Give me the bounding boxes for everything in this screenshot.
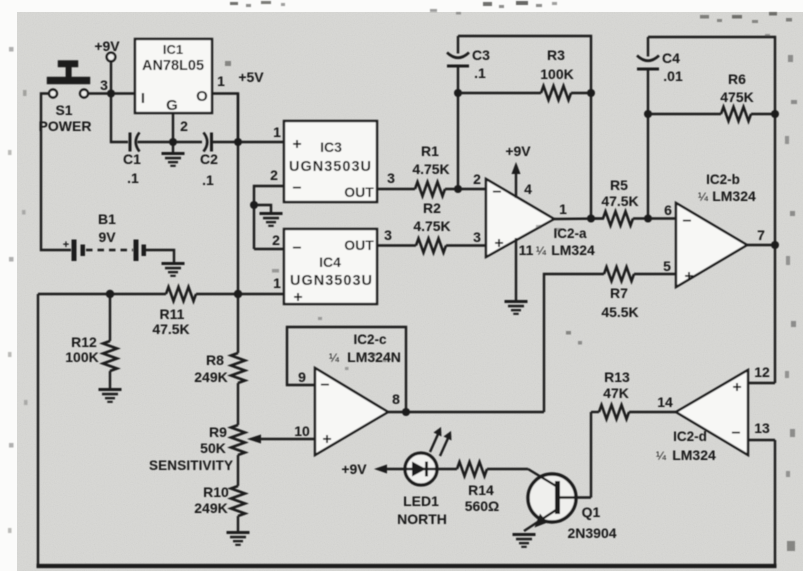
svg-text:C2: C2 [200,151,218,167]
svg-text:14: 14 [657,394,673,410]
svg-text:+: + [293,289,302,306]
svg-text:NORTH: NORTH [397,511,447,527]
svg-text:249K: 249K [194,500,227,516]
svg-text:45.5K: 45.5K [601,304,638,320]
wire Q1 collector up [590,412,592,498]
capacitor C2 [200,133,284,189]
svg-text:9V: 9V [98,229,116,245]
svg-text:S1: S1 [55,102,72,118]
svg-text:AN78L05: AN78L05 [142,58,204,74]
svg-text:6: 6 [664,202,672,218]
svg-text:3: 3 [387,170,395,186]
IC2-a output wire [554,217,604,220]
svg-text:−: − [682,213,691,230]
svg-text:IC2-c: IC2-c [353,332,387,347]
svg-text:+: + [322,431,331,448]
svg-text:4: 4 [524,181,532,197]
svg-text:4.75K: 4.75K [412,161,449,177]
svg-text:LM324N: LM324N [347,349,401,365]
ground (IC2-a pin 11) [505,300,528,315]
svg-text:R13: R13 [604,369,630,385]
switch S1 [39,62,92,135]
junction R12 [106,290,114,298]
wire S1 left down to battery [41,94,71,251]
svg-text:2: 2 [272,232,280,248]
svg-text:+: + [63,239,69,251]
resistor R5 47.5K [591,177,676,226]
wire [110,62,112,94]
node +9V LED supply arrow [341,461,405,477]
svg-text:I: I [141,90,145,107]
battery B1 9V [63,211,174,262]
svg-text:G: G [166,97,178,114]
svg-text:+: + [292,136,301,153]
svg-text:R10: R10 [203,484,229,500]
svg-text:475K: 475K [720,89,753,105]
svg-text:13: 13 [754,420,770,436]
hall sensor IC4 UGN3503U [284,229,377,306]
wire bottom rail [37,564,777,568]
resistor R12 100K [65,294,117,388]
transistor Q1 2N3904 [524,469,617,541]
node +9V terminal [94,38,120,94]
op-amp IC2-c [294,332,401,455]
svg-text:LM324: LM324 [551,242,595,258]
svg-text:C3: C3 [472,47,490,63]
resistor R3 100K [458,47,591,100]
svg-text:12: 12 [754,364,770,380]
IC2-b output wire [747,244,775,246]
IC2-c feedback wire [287,327,406,412]
junction C1/C2/ground [169,138,177,146]
IC4 pin 2 wire [254,232,284,249]
svg-text:LED1: LED1 [403,493,439,509]
wire right rail top (IC2-b out to pin 12) [774,245,776,383]
resistor R11 47.5K [152,287,284,337]
IC3 pin 3 out wire [377,170,415,189]
svg-text:2N3904: 2N3904 [567,525,616,541]
svg-text:.01: .01 [663,68,683,84]
svg-text:+9V: +9V [341,461,367,477]
svg-text:47K: 47K [603,385,629,401]
svg-text:3: 3 [384,227,392,243]
wire +9V node down to C1 [111,94,128,143]
svg-text:IC2-d: IC2-d [673,429,707,444]
svg-text:−: − [292,240,301,257]
svg-text:IC2-b: IC2-b [706,172,740,187]
IC2-d pin 12 wire [748,382,775,384]
svg-text:¼: ¼ [656,449,667,463]
svg-text:UGN3503U: UGN3503U [290,273,372,289]
ground (hall sensors) [254,205,283,227]
resistor R6 475K [648,71,775,121]
junction IC3/IC4 ground [250,201,258,209]
svg-text:560Ω: 560Ω [465,498,500,514]
IC2-d pin 13 wire [748,439,775,441]
wire IC1 pin2 [172,113,174,152]
svg-text:¼: ¼ [329,351,340,365]
junction R5/C4 [644,215,652,223]
svg-text:R5: R5 [610,177,628,193]
junction R3 right [587,89,595,97]
svg-text:C1: C1 [123,151,141,167]
svg-text:IC3: IC3 [320,139,342,155]
potentiometer R9 50K [200,424,315,486]
svg-text:R1: R1 [421,143,439,159]
svg-text:11: 11 [519,242,534,258]
svg-text:LM324: LM324 [672,447,716,463]
svg-text:2: 2 [270,167,278,183]
op-amp IC2-a [473,171,595,258]
regulator IC1 AN78L05 [100,39,225,134]
wire IC1 out [212,94,238,143]
svg-text:C4: C4 [662,50,680,66]
svg-text:R7: R7 [610,285,628,301]
wire C3 feedback top [458,36,591,218]
svg-text:8: 8 [392,391,400,407]
ground (R10) [227,531,250,546]
ground (Q1 emitter) [513,533,536,548]
svg-text:OUT: OUT [344,184,374,200]
svg-text:−: − [731,425,740,442]
junction R6 right [771,110,779,118]
svg-text:1: 1 [217,73,225,89]
svg-text:9: 9 [298,369,306,385]
svg-text:−: − [320,377,329,394]
svg-text:R6: R6 [728,71,746,87]
svg-text:R3: R3 [547,47,565,63]
resistor R7 45.5K [544,267,676,412]
IC4 pin 3 out wire [377,227,416,246]
ground (C1 C2) [162,152,185,167]
IC2-c output wire [388,411,544,413]
svg-text:R9: R9 [209,424,227,440]
LED1 NORTH [397,427,451,527]
svg-text:+: + [732,379,741,396]
wire S1 to +9V node and IC1 [88,92,135,94]
junction C3/R3 left [454,89,462,97]
svg-text:+: + [494,235,503,252]
wire reference rail [38,293,166,295]
junction +5V rail [234,138,242,146]
resistor R8 249K [194,352,245,425]
resistor R13 47K [591,369,676,419]
svg-text:2: 2 [473,171,481,187]
svg-text:LM324: LM324 [712,188,756,204]
wire C4 feedback top [648,37,775,245]
resistor R2 4.75K [413,200,486,253]
hall sensor IC3 UGN3503U [284,121,377,202]
svg-text:100K: 100K [65,349,98,365]
svg-text:3: 3 [473,229,481,245]
IC2-a pin 11 ground wire [515,238,517,300]
junction IC2-b out [771,241,779,249]
svg-text:100K: 100K [540,66,573,82]
svg-text:7: 7 [757,227,765,243]
svg-text:R11: R11 [160,306,185,322]
wire +5V vertical [237,94,239,354]
svg-text:R2: R2 [423,200,441,216]
svg-text:R14: R14 [468,482,494,498]
op-amp IC2-b [663,172,765,287]
resistor R14 560ohm [437,462,528,514]
IC3 pin 2 wire [254,167,284,249]
svg-text:SENSITIVITY: SENSITIVITY [149,458,233,473]
node junction [107,90,115,98]
svg-text:249K: 249K [194,369,227,385]
resistor R10 249K [194,484,245,531]
svg-text:.1: .1 [202,172,214,188]
IC2-a pin 4 +9V arrow [505,143,532,198]
svg-text:47.5K: 47.5K [152,321,189,337]
svg-text:50K: 50K [200,440,226,456]
wire right rail bottom (pin 13 down) [774,440,776,566]
ground (battery) [162,262,185,277]
svg-text:−: − [292,180,301,197]
wire left rail [37,294,39,566]
svg-text:5: 5 [663,258,671,274]
svg-text:.1: .1 [474,65,486,81]
svg-text:R12: R12 [71,334,97,350]
svg-text:1: 1 [273,124,281,140]
svg-text:10: 10 [294,423,310,439]
svg-text:Q1: Q1 [582,504,601,520]
svg-text:IC4: IC4 [319,254,341,270]
svg-text:−: − [492,184,501,201]
svg-text:+5V: +5V [238,69,264,85]
svg-text:O: O [196,88,208,105]
capacitor C3 .1 [447,36,490,189]
svg-text:4.75K: 4.75K [413,218,450,234]
svg-text:.1: .1 [127,170,139,186]
junction R1/C3 [454,185,462,193]
junction C4/R6 left [644,110,652,118]
svg-text:B1: B1 [98,211,116,227]
svg-text:OUT: OUT [344,237,374,253]
svg-text:1: 1 [273,275,281,291]
resistor R1 4.75K [412,143,486,196]
svg-text:+9V: +9V [94,38,120,54]
svg-text:POWER: POWER [39,118,92,134]
junction +5V/divider [234,290,242,298]
svg-text:R8: R8 [206,352,224,368]
svg-text:UGN3503U: UGN3503U [289,159,371,175]
capacitor C1 [123,133,202,187]
junction IC2-c out [402,408,410,416]
svg-text:¼: ¼ [698,190,709,204]
capacitor C4 .01 [637,37,683,219]
op-amp IC2-d [656,364,770,463]
svg-text:IC1: IC1 [163,42,183,57]
svg-text:¼: ¼ [536,244,547,258]
svg-text:+: + [684,268,693,285]
svg-text:1: 1 [559,201,567,217]
ground (R12) [99,388,122,403]
svg-text:47.5K: 47.5K [601,193,638,209]
svg-text:+9V: +9V [505,143,531,159]
junction IC2-a out [587,215,595,223]
svg-text:2: 2 [180,118,188,134]
svg-text:3: 3 [100,77,108,93]
